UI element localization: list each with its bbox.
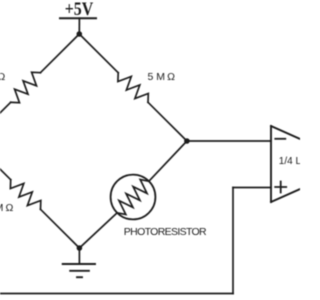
- wire bottom node to photoresistor: [79, 213, 117, 248]
- resistor R1 zigzag: [11, 72, 41, 102]
- photoresistor circle: [111, 175, 156, 220]
- svg-text:+5V: +5V: [65, 0, 94, 20]
- photoresistor zigzag element: [117, 180, 149, 215]
- node: top (+5V) junction dot: [77, 31, 83, 37]
- wire resistor R2 to right node: [148, 102, 187, 141]
- wire resistor R3 to bottom node: [41, 209, 80, 248]
- svg-text:5 M Ω: 5 M Ω: [0, 71, 5, 83]
- node: bottom (ground) junction dot: [77, 245, 83, 251]
- wire +5V bar to top node: [78, 18, 80, 34]
- wire resistor R1 to left node (off-canvas): [0, 102, 11, 141]
- wire vertical feedback to bottom rail: [232, 188, 234, 294]
- wire op-amp noninverting input: [233, 187, 271, 189]
- wire right node to op-amp inverting input: [187, 140, 271, 142]
- svg-text:1/4 LM324: 1/4 LM324: [279, 156, 300, 167]
- resistor R1 (top-left 5 M ohm) wire from top node: [40, 34, 79, 73]
- ground bar 1: [63, 263, 95, 265]
- op-amp noninverting input plus sign: [275, 182, 286, 193]
- op-amp inverting input minus sign: [275, 138, 285, 140]
- ground bar 2: [70, 270, 89, 272]
- op-amp U1 triangle: [271, 126, 320, 202]
- svg-text:5 M Ω: 5 M Ω: [0, 202, 13, 214]
- svg-text:PHOTORESISTOR: PHOTORESISTOR: [124, 226, 207, 238]
- power rail +5V bar: [60, 17, 96, 19]
- ground stem: [78, 248, 80, 264]
- svg-text:5 M Ω: 5 M Ω: [148, 71, 176, 83]
- resistor R3 (bottom-left 5 M ohm) wire from left node: [0, 141, 11, 180]
- resistor R2 (top-right 5 M ohm) wire from top node: [79, 34, 118, 73]
- wire bottom rail: [0, 293, 233, 295]
- wire photoresistor to right node: [149, 141, 187, 181]
- ground bar 3: [77, 276, 82, 278]
- node: right junction dot (bridge output): [184, 138, 190, 144]
- resistor R3 zigzag: [10, 180, 40, 210]
- resistor R2 zigzag: [118, 73, 148, 103]
